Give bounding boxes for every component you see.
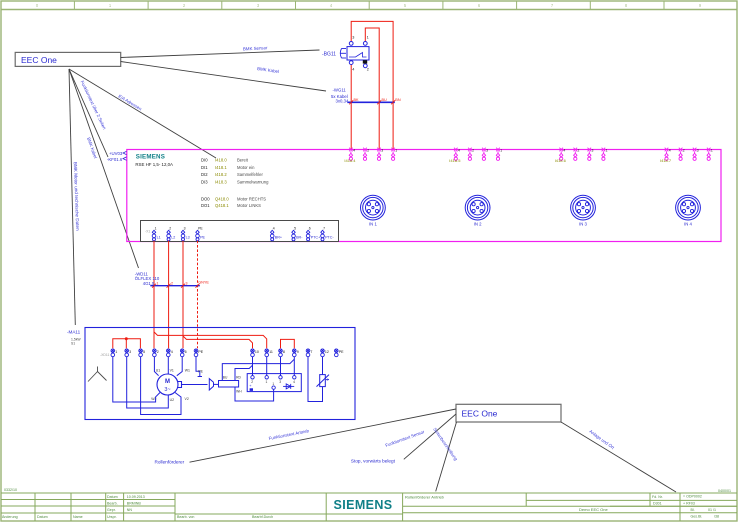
- cable WD11 line: [150, 285, 200, 287]
- svg-text:7: 7: [323, 226, 325, 230]
- svg-text:Urspr.: Urspr.: [107, 515, 117, 519]
- svg-text:10.09.2013: 10.09.2013: [127, 495, 145, 499]
- svg-text:IN 1: IN 1: [369, 222, 377, 227]
- brake coil box: [219, 381, 239, 388]
- header row line: [1, 9, 737, 11]
- svg-text:1: 1: [500, 149, 502, 153]
- svg-text:WH: WH: [236, 390, 242, 394]
- svg-text:1: 1: [711, 149, 713, 153]
- svg-text:L3: L3: [186, 236, 190, 240]
- terminal PE: [194, 349, 198, 357]
- svg-text:3: 3: [486, 149, 488, 153]
- svg-text:RSE HF 1,5- 12,0A: RSE HF 1,5- 12,0A: [135, 162, 173, 167]
- svg-text:EEC One: EEC One: [462, 409, 498, 419]
- red bridge terminals 8-9: [281, 339, 295, 348]
- pink device box: [127, 150, 721, 242]
- svg-text:Motor LINKS: Motor LINKS: [237, 203, 261, 208]
- svg-text:Ges.Bl.: Ges.Bl.: [691, 515, 703, 519]
- svg-text:4: 4: [563, 149, 565, 153]
- svg-text:Rollenförderer Antrieb: Rollenförderer Antrieb: [405, 495, 445, 500]
- svg-text:2: 2: [171, 282, 173, 286]
- annotation line to Stop text: [404, 414, 456, 459]
- annotation line to E/A list: [69, 69, 216, 158]
- svg-text:DI2: DI2: [201, 172, 208, 177]
- svg-text:3: 3: [697, 149, 699, 153]
- svg-text:PE: PE: [339, 350, 344, 354]
- motor shaft link to brake: [182, 384, 208, 386]
- svg-text:NN: NN: [127, 508, 133, 512]
- terminal 5: [139, 349, 143, 357]
- svg-text:Bearbf.Durch: Bearbf.Durch: [252, 515, 273, 519]
- svg-text:-BG11: -BG11: [322, 51, 336, 57]
- svg-text:0332/10: 0332/10: [4, 488, 17, 492]
- svg-text:-KF01.6: -KF01.6: [107, 157, 123, 162]
- title block texts: [2, 488, 731, 519]
- terminal 7: [306, 349, 310, 357]
- rectifier terminals: [251, 376, 296, 390]
- header column dividers: [73, 1, 75, 10]
- EEC One box top: [15, 52, 121, 66]
- svg-text:3: 3: [381, 149, 383, 153]
- EEC One box bottom: [456, 404, 561, 422]
- M12 connector IN 2: [465, 195, 490, 220]
- junction dot: [125, 337, 128, 340]
- svg-text:L2: L2: [171, 236, 175, 240]
- motor data text: [71, 338, 81, 346]
- proximity sensor BG11: [340, 42, 369, 68]
- cable WD11 ticks: [152, 284, 200, 288]
- svg-text:-X1: -X1: [145, 229, 150, 233]
- terminal 11: [265, 349, 269, 357]
- svg-text:2: 2: [367, 67, 369, 71]
- svg-text:I418.6: I418.6: [555, 158, 567, 163]
- svg-text:DO0: DO0: [201, 196, 210, 201]
- star point symbol: [88, 367, 107, 382]
- brake wire labels: [223, 376, 242, 394]
- svg-text:3x0,34: 3x0,34: [336, 99, 350, 104]
- svg-text:Bl.: Bl.: [691, 508, 695, 512]
- svg-text:8: 8: [283, 350, 285, 354]
- annotation line to structure identifiers: [561, 422, 676, 492]
- annotation line to sensor: [121, 50, 320, 58]
- terminal -X1:PE: [196, 230, 200, 241]
- svg-text:1: 1: [606, 149, 608, 153]
- svg-text:ϑ: ϑ: [327, 378, 329, 382]
- svg-text:I418.1: I418.1: [215, 165, 227, 170]
- terminal -X1:L2: [167, 230, 171, 241]
- sensor pin numbers: [352, 36, 369, 72]
- svg-text:-MA11: -MA11: [67, 330, 81, 335]
- motor terminal labels: [151, 368, 203, 402]
- cable WD11 label: [135, 271, 160, 286]
- svg-text:4: 4: [171, 350, 173, 354]
- feeder wire PE dashed: [197, 241, 199, 349]
- sensor pin2 unconnected square: [363, 60, 367, 63]
- svg-text:I418.5: I418.5: [449, 158, 461, 163]
- svg-text:PE: PE: [198, 350, 203, 354]
- svg-text:01 /1: 01 /1: [708, 508, 716, 512]
- svg-text:BU: BU: [223, 376, 228, 380]
- svg-text:3: 3: [129, 350, 131, 354]
- svg-text:1: 1: [115, 350, 117, 354]
- svg-text:SIEMENS: SIEMENS: [333, 498, 392, 512]
- svg-text:Q418.0: Q418.0: [215, 196, 229, 201]
- svg-text:4: 4: [458, 149, 460, 153]
- svg-text:Bearb.: Bearb.: [107, 502, 118, 506]
- svg-text:3: 3: [185, 282, 187, 286]
- svg-text:Demo EEC One: Demo EEC One: [579, 507, 608, 512]
- svg-text:12: 12: [325, 350, 329, 354]
- svg-text:DI0: DI0: [201, 158, 208, 163]
- svg-text:L1: L1: [157, 236, 161, 240]
- motor wires top: [154, 357, 202, 377]
- interruption point labels +UV03 -KF01.6: [107, 151, 123, 162]
- svg-text:BN: BN: [395, 98, 401, 102]
- svg-text:Bearb. von: Bearb. von: [177, 515, 194, 519]
- terminal 8: [279, 349, 283, 357]
- svg-text:Datum: Datum: [107, 495, 118, 499]
- svg-text:4: 4: [293, 380, 295, 384]
- motor bottom cross wires: [113, 357, 181, 415]
- terminal 2: [153, 349, 157, 357]
- bus connector pins I418.6: [559, 148, 605, 161]
- svg-text:PE: PE: [198, 226, 203, 230]
- annotation line to interruption point: [69, 69, 108, 157]
- svg-text:2: 2: [683, 149, 685, 153]
- svg-text:4: 4: [353, 149, 355, 153]
- svg-text:/38: /38: [714, 515, 719, 519]
- svg-text:Name: Name: [73, 515, 83, 519]
- rectifier diode: [283, 384, 294, 389]
- svg-text:9: 9: [297, 350, 299, 354]
- svg-text:PE: PE: [198, 369, 203, 373]
- svg-text:W1: W1: [185, 368, 190, 372]
- svg-text:-XD11: -XD11: [100, 353, 109, 357]
- annotation line to page description: [436, 422, 457, 491]
- svg-text:I418.3: I418.3: [215, 179, 227, 184]
- svg-text:3: 3: [592, 149, 594, 153]
- svg-text:Sammelfehler: Sammelfehler: [237, 172, 263, 177]
- wire sensor BN top loop: [351, 21, 393, 149]
- svg-text:+ RF03: + RF03: [683, 502, 695, 506]
- terminal PE: [335, 349, 339, 357]
- svg-text:-WG11: -WG11: [333, 88, 347, 93]
- svg-text:= ODP0002: = ODP0002: [683, 495, 702, 499]
- svg-text:BR-: BR-: [296, 236, 303, 240]
- svg-text:Rollenförderer: Rollenförderer: [155, 460, 185, 465]
- annotation line to motor: [69, 69, 75, 325]
- bus connector pins I418.4: [349, 148, 395, 161]
- svg-text:I418.0: I418.0: [215, 158, 227, 163]
- svg-text:3: 3: [352, 36, 354, 40]
- svg-text:BK: BK: [354, 98, 360, 102]
- svg-text:Datum: Datum: [37, 515, 48, 519]
- svg-text:5: 5: [294, 226, 296, 230]
- red star bridge terminals 1-3-5: [113, 339, 141, 349]
- terminal 12: [321, 349, 325, 357]
- terminal -X1:BR+: [270, 230, 274, 241]
- svg-text:GNYE: GNYE: [198, 281, 209, 285]
- svg-text:I418.4: I418.4: [344, 158, 356, 163]
- svg-text:Stop, vorwärts belegt: Stop, vorwärts belegt: [351, 459, 396, 464]
- svg-text:IN 3: IN 3: [579, 222, 587, 227]
- svg-text:PE: PE: [200, 236, 205, 240]
- thermistor wires: [308, 357, 323, 402]
- svg-text:BR+: BR+: [275, 236, 282, 240]
- svg-text:Fd. Nr.: Fd. Nr.: [652, 495, 663, 499]
- cable WG11 label: [331, 88, 349, 104]
- svg-text:S1: S1: [71, 341, 75, 345]
- svg-text:DI1: DI1: [201, 165, 208, 170]
- svg-text:Motor ein: Motor ein: [237, 165, 255, 170]
- svg-text:1: 1: [266, 380, 268, 384]
- title block grid: [1, 493, 737, 521]
- header column numbers: [36, 3, 702, 8]
- M12 connector IN 1: [361, 195, 386, 220]
- rectifier box: [247, 374, 301, 392]
- svg-text:EEC One: EEC One: [21, 55, 57, 65]
- svg-text:V2: V2: [185, 397, 189, 401]
- svg-text:IN 2: IN 2: [474, 222, 482, 227]
- red jumper L1 to terminal 11: [154, 332, 267, 348]
- terminal -X1:PTC-: [321, 230, 325, 241]
- annotation line to cable WG11: [121, 62, 326, 92]
- svg-text:1: 1: [395, 149, 397, 153]
- svg-text:DI3: DI3: [201, 179, 208, 184]
- terminal 6: [180, 349, 184, 357]
- terminal strip X1: [141, 221, 339, 242]
- svg-text:I418.7: I418.7: [660, 158, 672, 163]
- svg-text:SIEMENS: SIEMENS: [136, 154, 165, 161]
- motor M 3~: [157, 374, 182, 395]
- svg-text:7: 7: [310, 350, 312, 354]
- svg-text:Änderung: Änderung: [2, 515, 18, 519]
- bus connector pins I418.5: [454, 148, 500, 161]
- svg-text:Q418.1: Q418.1: [215, 203, 229, 208]
- svg-text:V1: V1: [170, 368, 174, 372]
- svg-text:2: 2: [578, 149, 580, 153]
- terminal 3: [125, 349, 129, 357]
- svg-text:PTC-: PTC-: [325, 236, 334, 240]
- annotation line to Rollenfoerderer text: [190, 409, 457, 462]
- svg-text:Bereit: Bereit: [237, 158, 249, 163]
- terminal 10: [251, 349, 255, 357]
- interruption arrows: [123, 151, 127, 160]
- svg-text:3: 3: [279, 380, 281, 384]
- svg-text:5: 5: [143, 350, 145, 354]
- svg-text:DO1: DO1: [201, 203, 210, 208]
- cable WD11 conductor labels: [156, 281, 209, 286]
- svg-text:PTC+: PTC+: [311, 236, 321, 240]
- svg-text:2: 2: [169, 226, 171, 230]
- cable WG11 line: [347, 101, 395, 103]
- svg-text:U2: U2: [170, 398, 175, 402]
- svg-text:BU: BU: [382, 98, 388, 102]
- cable WG11 wire colour labels: [354, 98, 401, 102]
- bus connector pins I418.7: [665, 148, 711, 161]
- svg-text:IN 4: IN 4: [684, 222, 692, 227]
- svg-text:1: 1: [367, 36, 369, 40]
- terminal 9: [293, 349, 297, 357]
- svg-text:0400/01: 0400/01: [718, 489, 731, 493]
- brake routing wires: [222, 357, 294, 401]
- cable WG11 conductor ticks: [349, 100, 395, 104]
- svg-text:BRMINB: BRMINB: [127, 502, 142, 506]
- svg-text:Motor RECHTS: Motor RECHTS: [237, 196, 266, 201]
- M12 connector IN 4: [676, 195, 701, 220]
- svg-text:11: 11: [269, 350, 273, 354]
- brake horn symbol: [209, 379, 218, 390]
- rectifier pin numbers: [251, 380, 295, 386]
- svg-text:2: 2: [472, 149, 474, 153]
- svg-text:4: 4: [273, 226, 275, 230]
- svg-text:10: 10: [255, 350, 259, 354]
- svg-text:1: 1: [155, 226, 157, 230]
- svg-text:3~: 3~: [164, 387, 170, 393]
- annotation line to cable WD11: [69, 69, 139, 268]
- svg-text:Sammelwarnung: Sammelwarnung: [237, 179, 269, 184]
- svg-text:1: 1: [272, 382, 274, 386]
- motor unit box: [85, 328, 355, 420]
- feeder wires L1 L2 L3 to motor box: [154, 241, 183, 349]
- svg-text:2: 2: [367, 149, 369, 153]
- terminal -X1:L1: [152, 230, 156, 241]
- terminal 1: [111, 349, 115, 357]
- red jumper L3 to terminal 10: [183, 336, 253, 348]
- svg-text:2: 2: [157, 350, 159, 354]
- svg-text:M: M: [165, 379, 170, 385]
- M12 connector IN 3: [571, 195, 596, 220]
- DI/DO address list: [201, 158, 269, 208]
- terminal -X1:L3: [181, 230, 185, 241]
- svg-text:+UV03: +UV03: [109, 151, 123, 156]
- svg-text:Gepr.: Gepr.: [107, 508, 116, 512]
- svg-text:RD: RD: [236, 376, 241, 380]
- terminal -X1:BR-: [292, 230, 296, 241]
- svg-text:D301: D301: [653, 502, 662, 506]
- svg-text:I418.2: I418.2: [215, 172, 227, 177]
- svg-text:3: 3: [184, 226, 186, 230]
- terminal -X1:PTC+: [306, 230, 310, 241]
- svg-text:U1: U1: [156, 368, 161, 372]
- thermistor symbol: [317, 375, 330, 387]
- svg-text:6: 6: [309, 226, 311, 230]
- svg-text:4: 4: [669, 149, 671, 153]
- svg-text:1: 1: [156, 282, 158, 286]
- svg-text:4: 4: [352, 67, 354, 71]
- terminal 4: [167, 349, 171, 357]
- svg-text:6: 6: [185, 350, 187, 354]
